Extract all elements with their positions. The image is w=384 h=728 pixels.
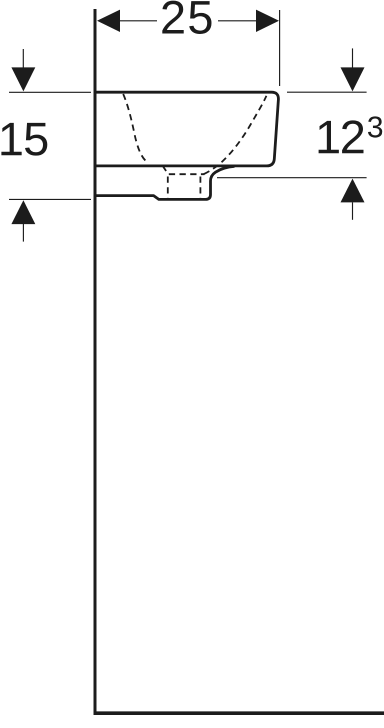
dimension 12.3: digit 1: [319, 121, 339, 153]
dimension 15: top arrow (points down): [11, 67, 35, 91]
wall line: [94, 9, 97, 715]
dimension 12.3: bottom extension line: [217, 177, 367, 179]
dimension 12.3: top extension line: [287, 91, 367, 93]
dimension 25: digit 5: [189, 1, 211, 34]
dimension 25: dimension line right segment: [218, 20, 257, 22]
hidden drain pipe right edge (dashed): [199, 177, 201, 199]
hidden bowl contour right (dashed): [204, 96, 267, 174]
dimension 25: left arrow: [97, 10, 120, 32]
dimension 15: top extension line: [9, 91, 91, 93]
hidden bowl contour left (dashed): [123, 94, 146, 161]
dimension 12.3: top arrow (points down): [341, 67, 365, 91]
basin outer profile (rim, front edge, deck underside): [96, 92, 278, 166]
dimension 12.3: superscript 3: [368, 116, 382, 137]
dimension 12.3: bottom arrow (points up): [341, 179, 365, 203]
hidden drain pipe left edge (dashed): [167, 177, 169, 199]
hidden drain funnel (dashed trapezoid): [163, 166, 205, 174]
trap cover outline (bottom of basin): [96, 166, 235, 199]
dimension 15: bottom leader line: [22, 224, 24, 242]
dimension 15: bottom arrow (points up): [11, 200, 35, 224]
dimension 12.3: bottom leader line: [352, 202, 354, 220]
dimension 15: digit 5: [25, 123, 47, 156]
dimension 25: extension line right: [279, 10, 281, 86]
dimension 12.3: top leader line: [352, 48, 354, 67]
dimension 25: digit 2: [162, 1, 183, 34]
dimension 25: right arrow: [256, 10, 279, 32]
dimension 15: top leader line: [22, 49, 24, 68]
dimension 15: digit 1: [1, 123, 21, 155]
dimension 15: bottom extension line: [9, 198, 91, 200]
dimension 12.3: digit 2: [342, 120, 363, 153]
dimension 25: dimension line left segment: [119, 20, 157, 22]
floor line: [94, 711, 384, 715]
